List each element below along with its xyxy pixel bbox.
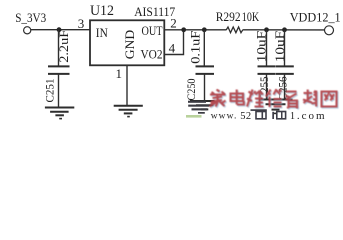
watermark url overline artifact: [251, 109, 267, 111]
wire junction to C250: [203, 30, 205, 66]
svg-text:R292: R292: [216, 9, 241, 24]
svg-text:10uF: 10uF: [253, 31, 268, 63]
net label VDD12_1: [290, 10, 341, 25]
svg-text:1: 1: [290, 111, 295, 122]
svg-text:C251: C251: [42, 79, 56, 103]
terminal circle S_3V3: [24, 27, 31, 34]
ground below C251: [45, 107, 74, 109]
pin name OUT: [142, 24, 163, 38]
svg-text:52: 52: [240, 111, 251, 122]
watermark url 1: [272, 112, 274, 119]
value label 2.2uF: [56, 30, 71, 63]
designator C256: [276, 76, 290, 100]
resistor R292 zigzag: [226, 27, 243, 33]
wire junction to C255: [266, 30, 268, 66]
svg-text:C250: C250: [184, 79, 198, 101]
value label 10uF C255: [253, 31, 268, 63]
watermark chinese text blue echo: [211, 91, 338, 110]
op regulator U12 body: [90, 20, 164, 65]
node junction C256: [282, 27, 287, 32]
wire OUT pin to resistor: [164, 29, 226, 31]
designator C255: [257, 76, 271, 100]
svg-text:VO2: VO2: [141, 47, 163, 61]
svg-text:VDD12_1: VDD12_1: [290, 10, 341, 25]
wire C250 to ground: [204, 74, 206, 101]
designator U12: [90, 3, 114, 19]
svg-text:OUT: OUT: [142, 24, 163, 38]
svg-text:GND: GND: [122, 30, 137, 60]
pin name GND rotated: [122, 30, 137, 60]
node junction C250: [202, 27, 207, 32]
wire VO2 pin: [164, 30, 183, 55]
net label S_3V3: [15, 10, 46, 25]
node junction VO2 tie: [181, 27, 186, 32]
part value AIS1117: [134, 4, 175, 19]
pin name VO2: [141, 47, 163, 61]
svg-text:2: 2: [170, 15, 177, 30]
value label 0.1uF: [187, 31, 202, 64]
wire C256 to ground: [284, 74, 286, 99]
wire C251 to ground: [58, 74, 60, 107]
svg-text:10K: 10K: [242, 9, 260, 24]
wire C255 to ground: [266, 74, 268, 99]
capacitor C255 plates: [258, 65, 276, 67]
wire junction to C256: [284, 30, 286, 66]
ground below U12: [114, 105, 143, 107]
shared ground below C255 C256: [259, 99, 293, 101]
watermark url 0 box2: [277, 112, 286, 119]
watermark logo dark bars: [188, 101, 209, 114]
pin number 3: [78, 16, 85, 31]
watermark url 0 box1: [256, 112, 266, 119]
wire S_3V3 to IN pin: [31, 29, 90, 31]
value label 10uF C256: [272, 31, 287, 63]
svg-text:1: 1: [116, 66, 123, 81]
svg-text:10uF: 10uF: [272, 31, 287, 63]
wire GND pin to ground: [126, 65, 128, 105]
capacitor C250 plates: [196, 65, 215, 67]
svg-text:.com: .com: [297, 110, 327, 122]
terminal circle VDD12_1: [325, 26, 334, 35]
ground below C250: [190, 100, 215, 102]
pin number 2: [170, 15, 177, 30]
pin number 1: [116, 66, 123, 81]
designator C251: [42, 79, 56, 103]
watermark logo green bar: [186, 115, 202, 118]
svg-text:4: 4: [169, 41, 176, 56]
svg-text:IN: IN: [96, 26, 108, 40]
wire resistor to VDD12_1: [243, 29, 325, 31]
watermark chinese text 家电维修资料网: [210, 90, 337, 109]
label R292 10K: [216, 9, 260, 24]
pin name IN: [96, 26, 108, 40]
capacitor C256 plates: [276, 65, 294, 67]
svg-text:2.2uF: 2.2uF: [56, 30, 71, 63]
node junction C255: [264, 27, 269, 32]
node junction at C251: [57, 27, 62, 32]
designator C250: [184, 79, 198, 101]
wire junction to C251: [58, 30, 60, 66]
svg-text:0.1uF: 0.1uF: [187, 31, 202, 64]
svg-text:U12: U12: [90, 3, 114, 19]
svg-text:www.: www.: [211, 112, 238, 122]
svg-text:S_3V3: S_3V3: [15, 10, 46, 25]
pin number 4: [169, 41, 176, 56]
svg-text:3: 3: [78, 16, 85, 31]
capacitor C251 plates: [48, 65, 70, 67]
